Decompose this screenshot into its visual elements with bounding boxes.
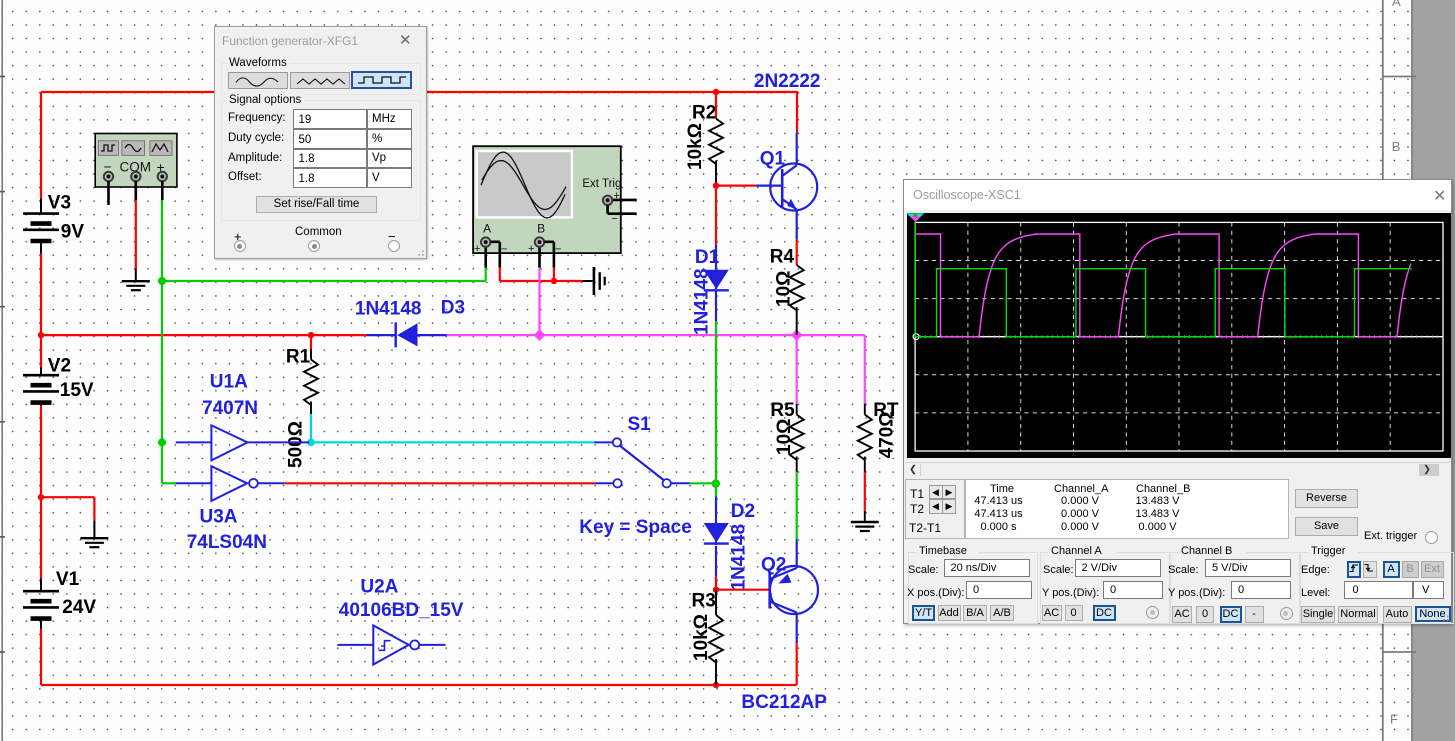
svg-text:Key = Space: Key = Space	[579, 517, 692, 538]
wire green XFG1 plus to gates and scope A	[162, 181, 486, 483]
node junction D2/R3/Q2	[713, 587, 719, 593]
svg-text:74LS04N: 74LS04N	[187, 532, 267, 553]
svg-text:1N4148: 1N4148	[692, 268, 713, 335]
svg-text:15V: 15V	[60, 380, 94, 401]
svg-text:R5: R5	[770, 400, 795, 421]
resistor RT 470 Ohm	[858, 400, 899, 472]
battery V1 24V	[23, 569, 96, 629]
svg-text:500Ω: 500Ω	[286, 421, 307, 468]
svg-text:V1: V1	[56, 569, 80, 590]
svg-text:10kΩ: 10kΩ	[691, 614, 712, 661]
resistor R3 10kOhm	[691, 590, 723, 685]
svg-text:V2: V2	[48, 356, 71, 377]
svg-text:R3: R3	[692, 591, 716, 612]
wire green R5 to Q2	[796, 472, 798, 539]
node junction bottom rail at R3	[713, 682, 719, 688]
svg-text:U1A: U1A	[210, 371, 248, 392]
diode D3 1N4148 horizontal	[367, 322, 447, 347]
svg-text:R1: R1	[286, 347, 311, 368]
node junction mid rail at R1	[308, 332, 314, 338]
wire red junction to ground GND1	[41, 497, 94, 520]
wire red mid rail to R1 and D3	[41, 334, 367, 336]
wire green scope channel A riser	[485, 268, 487, 281]
svg-text:10Ω: 10Ω	[774, 419, 795, 455]
ground GND4 under RT	[851, 522, 879, 531]
svg-text:S1: S1	[628, 414, 652, 435]
svg-text:B: B	[537, 221, 545, 235]
wire XFG1 COM to ground	[135, 181, 138, 280]
svg-text:9V: 9V	[61, 222, 85, 243]
svg-text:A: A	[1392, 0, 1401, 9]
wire XSC1 A+ stub	[484, 248, 487, 268]
wire red V2- to ground junction and V1+	[40, 406, 42, 579]
wire XSC1 A- to ground net	[491, 242, 582, 281]
gate U2A 40106BD_15V schmitt inverter	[337, 577, 463, 665]
ground GND3 right of scope icon	[582, 267, 604, 295]
node junction scope ground net	[551, 278, 557, 284]
ground GND2 under XFG1 COM	[122, 281, 150, 290]
svg-text:Ext Trig: Ext Trig	[582, 178, 621, 190]
svg-text:7407N: 7407N	[202, 398, 258, 419]
gate U3A 74LS04N inverter	[176, 466, 285, 553]
svg-text:V3: V3	[48, 193, 71, 214]
node green junction U1A input	[158, 438, 166, 446]
ground GND1	[80, 520, 108, 547]
node junction R2/D1/Q1 base	[713, 182, 719, 188]
svg-text:BC212AP: BC212AP	[741, 692, 827, 713]
svg-text:−: −	[501, 244, 507, 256]
svg-text:24V: 24V	[62, 597, 96, 618]
svg-text:2N2222: 2N2222	[754, 71, 821, 92]
node magenta junction at R4/R5	[791, 329, 803, 341]
svg-text:Q2: Q2	[761, 555, 786, 576]
label D3 name	[355, 298, 465, 320]
node green junction at D1/D2/switch	[712, 479, 720, 487]
resistor R2 10kOhm	[685, 92, 723, 185]
svg-text:F: F	[1390, 712, 1398, 727]
wire red RT to ground	[864, 472, 866, 521]
svg-text:40106BD_15V: 40106BD_15V	[339, 600, 464, 621]
wire red Q1 base	[716, 186, 756, 245]
op-amp gate U1A 7407N buffer	[176, 371, 309, 460]
instrument XFG1 function generator icon	[95, 134, 177, 188]
battery V3 9V	[23, 193, 84, 254]
resistor R4 10 Ohm	[770, 240, 804, 336]
svg-text:+: +	[528, 243, 534, 255]
wire magenta scope B to RC node	[538, 268, 540, 335]
svg-text:R2: R2	[692, 102, 716, 123]
wire red left column V3- to V2+	[40, 254, 42, 368]
resistor R5 10 Ohm	[770, 400, 803, 472]
wire green switch to D2 node	[690, 482, 716, 484]
wire XSC1 B+ stub	[538, 248, 541, 268]
svg-text:−: −	[555, 244, 561, 256]
svg-text:U3A: U3A	[200, 506, 238, 527]
wire red D2 to R3/Q2 base	[716, 577, 769, 590]
wire XSC1 B- drop	[544, 242, 554, 281]
svg-text:A: A	[483, 221, 491, 235]
sheet border right column	[1383, 0, 1455, 741]
svg-text:D2: D2	[731, 501, 755, 522]
svg-text:1N4148: 1N4148	[729, 524, 750, 591]
transistor Q1 2N2222 NPN	[754, 71, 821, 240]
svg-text:+: +	[474, 243, 480, 255]
wire red U3A output to switch	[284, 482, 595, 484]
node green junction XFG plus	[158, 277, 166, 285]
instrument XSC1 oscilloscope icon	[473, 146, 621, 255]
wire green D1 to switch node	[715, 321, 717, 483]
svg-text:D1: D1	[695, 247, 720, 268]
resistor R1 500 Ohm	[286, 335, 319, 468]
svg-text:Q1: Q1	[760, 148, 786, 169]
node junction mid rail at V-column	[38, 332, 44, 338]
svg-text:U2A: U2A	[360, 577, 398, 598]
diode D2 1N4148 vertical	[704, 484, 755, 591]
wire red bottom rail V1- to Q2	[41, 629, 797, 685]
svg-text:B: B	[1392, 139, 1401, 154]
node junction at V1 ground tap	[38, 494, 44, 500]
switch S1 Key=Space	[579, 414, 692, 538]
svg-text:1N4148: 1N4148	[355, 299, 422, 320]
transistor Q2 BC212AP PNP	[741, 539, 827, 713]
wire magenta bus D3 to R4/R5/RT	[447, 335, 865, 404]
node junction top rail at R2	[713, 89, 719, 95]
wire XSC1 ext trig stubs	[608, 200, 637, 214]
node cyan junction U1A output	[307, 439, 315, 447]
wire cyan R1 to switch	[311, 414, 594, 442]
svg-text:10Ω: 10Ω	[774, 271, 795, 307]
wire red top rail V3+ to R2/Q1	[41, 91, 797, 199]
wire XFG1 minus stub (dangling)	[107, 181, 110, 205]
svg-text:10kΩ: 10kΩ	[685, 123, 706, 170]
battery V2 15V	[23, 356, 94, 407]
node magenta junction at scope B	[534, 329, 546, 341]
svg-text:470Ω: 470Ω	[877, 411, 898, 458]
sheet border left line	[0, 0, 5, 741]
svg-text:R4: R4	[770, 247, 795, 268]
diode D1 1N4148 vertical	[692, 244, 729, 335]
svg-text:D3: D3	[441, 298, 465, 319]
